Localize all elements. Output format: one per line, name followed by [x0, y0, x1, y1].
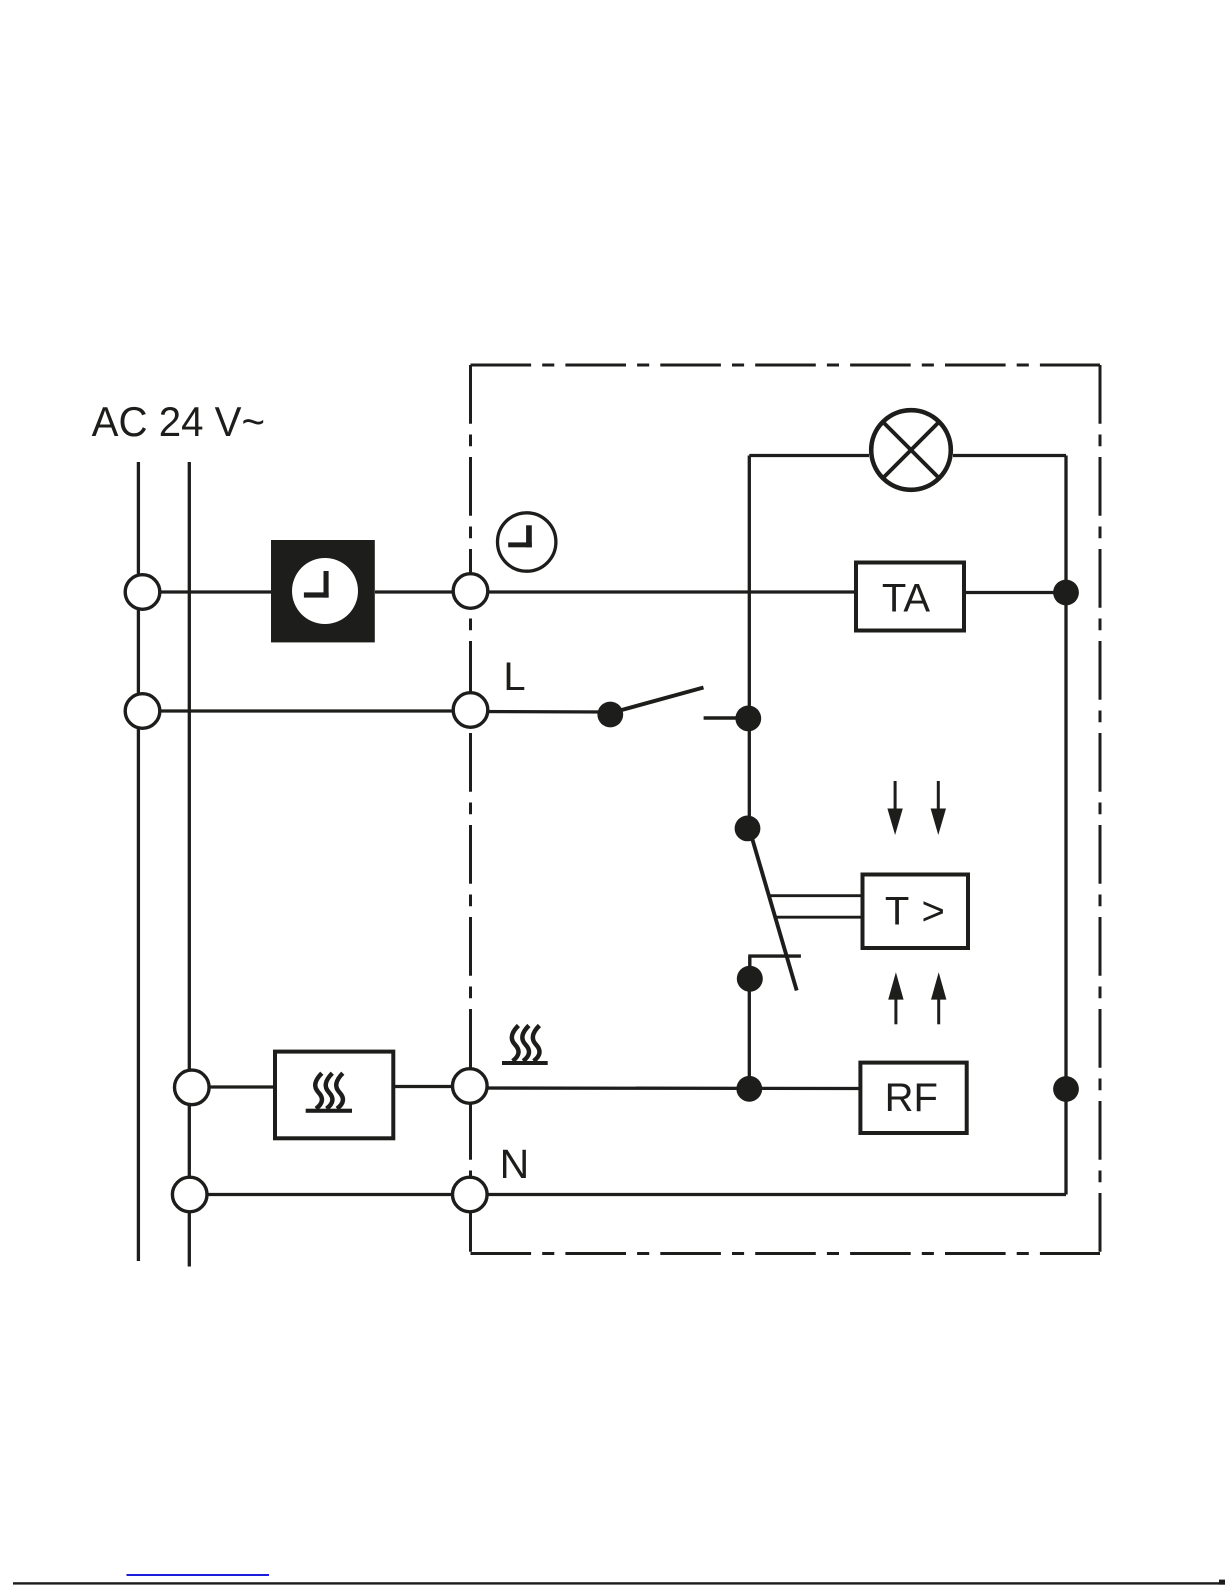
- junction node RF right: [1053, 1076, 1079, 1102]
- switch S1 fixed contact stub: [704, 716, 748, 719]
- wire heater row terminal to heater box: [192, 1085, 275, 1088]
- wire heater box to boundary terminal: [393, 1085, 470, 1088]
- svg-text:AC 24 V~: AC 24 V~: [92, 398, 265, 445]
- wire lamp branch left vertical: [748, 456, 751, 829]
- dash-dot enclosure right edge: [1099, 365, 1102, 1254]
- wire thermostat bottom to RF row: [748, 979, 751, 1089]
- thermostat link upper line: [770, 894, 863, 897]
- svg-text:TA: TA: [882, 577, 930, 621]
- wire lamp top right segment: [953, 454, 1066, 457]
- wire row1 boundary terminal to TA box: [471, 590, 857, 593]
- arrow down 2: [931, 781, 946, 835]
- svg-text:L: L: [503, 655, 525, 699]
- svg-text:N: N: [500, 1141, 530, 1187]
- dash-dot enclosure left edge: [469, 365, 472, 1254]
- terminal N row boundary: [453, 1177, 488, 1212]
- junction node thermostat bottom: [737, 966, 763, 992]
- terminal row1 left: [125, 575, 160, 610]
- RF box: [860, 1063, 966, 1133]
- footer rule right nub: [1219, 1580, 1225, 1585]
- terminal heater row boundary: [453, 1069, 488, 1104]
- arrow down 1: [887, 781, 902, 835]
- wire supply rail 1 (left vertical): [137, 462, 140, 1261]
- junction node thermostat top: [735, 816, 761, 842]
- black footer rule: [13, 1582, 1225, 1584]
- wire N row terminal to boundary: [190, 1193, 470, 1196]
- junction node switch output: [735, 706, 761, 732]
- terminal N row left: [172, 1177, 207, 1212]
- wire supply rail 2 (inner vertical): [188, 462, 191, 1267]
- wire N row boundary to right rail: [470, 1193, 1066, 1196]
- terminal row2 left: [125, 694, 160, 729]
- clock symbol (program timer): [498, 513, 556, 571]
- dash-dot enclosure top edge: [471, 364, 1101, 367]
- wire lamp top left segment: [749, 454, 869, 457]
- wire row1 timer box to boundary terminal: [375, 590, 471, 593]
- wire row2 boundary to switch pivot: [471, 710, 611, 714]
- heating symbol at boundary: [502, 1026, 548, 1066]
- wire row1 TA box to right rail: [964, 591, 1066, 594]
- svg-text:RF: RF: [885, 1076, 938, 1120]
- thermostat fixed contact tick: [748, 956, 801, 970]
- switch S1 pivot dot: [597, 702, 623, 728]
- lamp E1 (circle with cross): [871, 410, 951, 490]
- blue footer line: [127, 1574, 270, 1576]
- terminal row2 boundary: [453, 693, 488, 728]
- heater box: [275, 1052, 393, 1139]
- thermostat link lower line: [777, 916, 863, 919]
- arrow up 1: [888, 972, 903, 1024]
- wire heater row boundary to RF box: [470, 1086, 861, 1090]
- dash-dot enclosure bottom edge: [471, 1252, 1101, 1255]
- svg-text:T >: T >: [885, 890, 945, 934]
- arrow up 2: [931, 972, 946, 1024]
- junction node TA right: [1053, 580, 1079, 606]
- TA box: [856, 563, 964, 631]
- wire row2 L terminal to boundary: [143, 709, 471, 712]
- T> box: [863, 875, 969, 949]
- switch S1 blade: [613, 688, 704, 713]
- terminal row1 boundary: [453, 574, 488, 609]
- thermostat switch blade: [752, 838, 797, 991]
- terminal heater row left: [175, 1070, 210, 1105]
- junction node RF left: [736, 1076, 762, 1102]
- wire right rail vertical: [1064, 456, 1067, 1195]
- wire row1 terminal to timer box: [143, 590, 272, 593]
- timer switch box (black): [271, 540, 375, 642]
- heater box heating symbol: [306, 1073, 352, 1113]
